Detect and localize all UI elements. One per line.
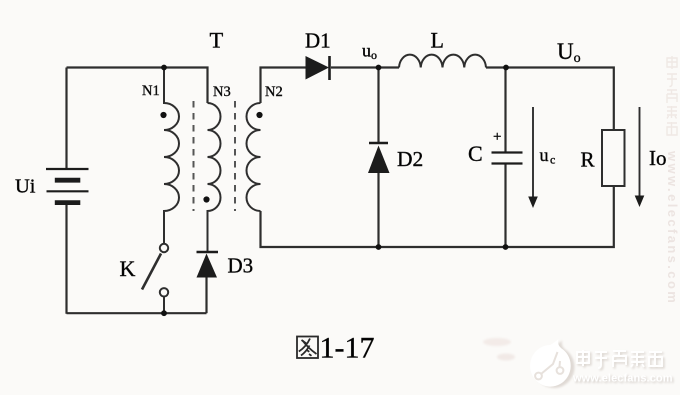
watermark smudge left of logo	[483, 338, 511, 346]
node bottom-left junction	[161, 310, 167, 316]
inductor L	[399, 55, 486, 68]
wire top-left (battery top to transformer)	[67, 66, 165, 68]
transformer T winding N3	[208, 103, 221, 251]
svg-text:K: K	[120, 256, 136, 281]
watermark logo circle	[530, 339, 574, 388]
wire uo node to inductor	[486, 68, 614, 131]
diode D1	[306, 56, 330, 80]
svg-text:Ui: Ui	[15, 176, 36, 198]
wire left rail (battery branch)	[65, 68, 67, 169]
switch K	[142, 244, 168, 313]
watermark brand text emboss	[579, 352, 664, 370]
svg-text:+: +	[493, 129, 501, 145]
wire battery bottom to corner	[65, 205, 67, 314]
svg-text:L: L	[431, 28, 444, 53]
arrow uc	[528, 107, 538, 208]
svg-text:D2: D2	[397, 147, 423, 171]
svg-text:T: T	[210, 28, 224, 53]
polarity dot N3	[203, 196, 209, 202]
resistor R	[602, 130, 625, 186]
polarity dot N2	[256, 112, 262, 118]
transformer core dashed line left	[193, 101, 195, 211]
wire D2 branch vertical	[377, 68, 379, 144]
wire N2 top to D1	[261, 68, 308, 104]
wire capacitor branch upper	[504, 68, 506, 153]
transformer core dashed line right	[234, 101, 236, 211]
node L-output	[503, 65, 509, 71]
node C bottom	[503, 244, 509, 250]
wire bottom-left rail	[67, 312, 207, 314]
svg-text:D1: D1	[305, 29, 331, 53]
svg-text:D3: D3	[228, 254, 254, 278]
node D2 bottom	[376, 244, 382, 250]
svg-text:C: C	[468, 141, 483, 166]
watermark right-edge vertical brand (very faint)	[667, 56, 677, 135]
transformer T winding N2	[247, 103, 261, 211]
svg-text:www.elecfans.com: www.elecfans.com	[665, 150, 680, 305]
svg-text:1-17: 1-17	[320, 332, 375, 365]
node uo	[376, 65, 382, 71]
watermark smudge near url	[497, 354, 515, 361]
battery Ui	[46, 169, 89, 203]
caption figure 1-17	[297, 332, 375, 365]
wire D2 anode to bottom rail	[377, 173, 379, 247]
svg-text:N1: N1	[142, 83, 160, 99]
transformer T winding N1	[164, 68, 179, 244]
polarity dot N1	[160, 112, 166, 118]
svg-text:Io: Io	[649, 146, 667, 170]
wire capacitor branch lower	[504, 164, 506, 247]
diode D3	[197, 252, 219, 313]
svg-text:N2: N2	[265, 84, 283, 100]
capacitor C	[492, 153, 523, 164]
svg-text:www.elecfans.com: www.elecfans.com	[572, 373, 673, 385]
arrow Io	[635, 107, 645, 207]
node junction top (N1 tap)	[161, 65, 167, 71]
wire D1 cathode to node uo	[331, 66, 399, 68]
diode D2	[368, 143, 390, 173]
wire bottom rail secondary	[261, 186, 614, 247]
svg-text:N3: N3	[213, 84, 231, 100]
svg-text:R: R	[581, 148, 595, 172]
wire top rail N1-to-N3	[164, 68, 208, 104]
